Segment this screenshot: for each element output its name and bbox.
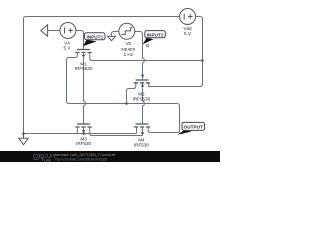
M2 label — [133, 92, 151, 102]
transistor M1 IRF9530 — [75, 50, 91, 53]
svg-text:1 Hz: 1 Hz — [124, 52, 134, 57]
M4 body arrow — [141, 132, 145, 135]
svg-text:V5: V5 — [125, 41, 131, 46]
wire V4 minus to arrow flag — [48, 30, 60, 32]
wire M1 body down to M3 gate, hop over output wire — [84, 56, 86, 124]
junction M2 drain at output wire — [125, 102, 128, 105]
svg-text:IRF530: IRF530 — [134, 142, 150, 147]
transistor M2 IRF9530 — [134, 80, 150, 83]
V5 value label — [121, 41, 135, 57]
junction node B wire above M2 gate — [141, 74, 144, 77]
svg-text:IRF9530: IRF9530 — [75, 66, 93, 71]
wire M2 drain left drop to output wire — [127, 83, 136, 104]
M3 body arrow — [82, 130, 86, 133]
M1 label — [75, 62, 93, 72]
svg-text:simulator: Lab1_201712554_1 Ci: simulator: Lab1_201712554_1 CircuitLab — [55, 153, 115, 157]
junction M3 source at ground bus — [82, 132, 85, 135]
junction ground node — [22, 132, 25, 135]
wire M4 right stub to output — [148, 127, 179, 132]
svg-text:5 V: 5 V — [64, 45, 72, 50]
flag OUTPUT — [177, 122, 204, 134]
M3 label — [76, 137, 92, 147]
wire M3 drain across to M4 source — [90, 127, 143, 135]
voltage source V5 square wave — [119, 23, 135, 39]
wire M1 drain left drop to output node — [67, 53, 84, 104]
ground bottom left — [19, 134, 28, 145]
svg-text:INPUT1: INPUT1 — [86, 34, 103, 39]
flag INPUT2 — [143, 31, 166, 45]
transistor M3 IRF530 — [75, 124, 91, 127]
wire Vdd right drop to M2 source — [148, 17, 202, 87]
footer bar — [0, 151, 220, 162]
wire M2 source right — [148, 83, 151, 87]
svg-text:IRF530: IRF530 — [76, 141, 92, 146]
svg-text:INPUT2: INPUT2 — [147, 32, 164, 37]
ground at V5 — [108, 36, 116, 40]
svg-text:5 V: 5 V — [184, 31, 192, 36]
Vdd value label — [183, 26, 192, 36]
transistor M4 IRF530 — [134, 124, 150, 127]
voltage source V4 — [60, 23, 76, 39]
V4 value label — [64, 41, 72, 51]
wire M1 source to Vdd drop — [90, 53, 203, 61]
wire M3 source stubs and M4 drain stub — [77, 127, 136, 133]
M4 label — [134, 138, 150, 148]
wire M4 source stub — [142, 127, 144, 135]
voltage source Vdd — [180, 9, 196, 25]
wire V5 plus down to M2 gate, hop over source rail — [135, 32, 145, 80]
wire V5 minus to ground — [112, 32, 119, 37]
M2 body arrow — [141, 83, 145, 86]
flag arrow (left pointer) — [41, 25, 48, 37]
wire Vdd top rail and left rail — [24, 17, 180, 134]
wire M2 body down to M4 gate, hop over output wire — [143, 83, 145, 124]
footer logo CIRCUIT LAB — [33, 154, 57, 163]
svg-text:OUTPUT: OUTPUT — [184, 125, 203, 130]
wire V4 plus down to M1 gate — [76, 31, 84, 49]
svg-text:B: B — [146, 43, 149, 48]
svg-text:LAB: LAB — [44, 158, 52, 163]
svg-text:http://circuitlab.com/c66d4e4k: http://circuitlab.com/c66d4e4kx6g5x — [55, 158, 108, 162]
M1 body arrow — [82, 53, 86, 56]
junction M1 source wire to Vdd drop — [201, 59, 204, 62]
wire output node horizontal and right drop — [84, 104, 180, 133]
flag INPUT1 — [83, 33, 105, 47]
svg-text:IRF9530: IRF9530 — [133, 96, 151, 101]
svg-text:square: square — [121, 47, 135, 52]
wire ground bus — [24, 133, 137, 135]
